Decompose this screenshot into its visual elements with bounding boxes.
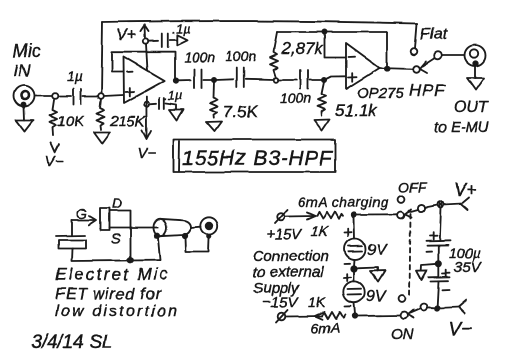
plug tip contact dot — [155, 234, 159, 238]
svg-text:2,87k: 2,87k — [280, 39, 324, 58]
HPF contact circle — [413, 66, 420, 73]
label V+ big — [454, 180, 477, 200]
node B — [98, 93, 104, 99]
capacitor C8 100u — [429, 277, 451, 281]
dashed switch link line — [410, 214, 411, 296]
label HPF — [409, 81, 447, 100]
wire node P5 to ground — [421, 264, 436, 271]
switch SW2a arm with arrow — [405, 209, 419, 218]
terminal -15V circle with slash — [276, 310, 288, 323]
resistor R7 1K bottom — [322, 312, 346, 319]
label Electret Mic — [55, 265, 170, 284]
wire U2 output right — [380, 68, 413, 69]
ground for C3 — [169, 110, 183, 121]
label V- big — [449, 319, 473, 340]
U1 V+ pin wire — [146, 44, 148, 70]
label 35V — [454, 259, 483, 276]
wire node P2 to battery B2 — [353, 271, 355, 281]
svg-text:V+: V+ — [454, 180, 477, 200]
node G U2 output feedback junction — [385, 66, 389, 70]
battery B1 plus sign — [345, 229, 353, 236]
svg-text:6mA: 6mA — [311, 320, 340, 336]
svg-text:to external: to external — [253, 264, 324, 281]
wire C7 to node P5 — [438, 246, 440, 261]
plug P1 barrel — [154, 219, 191, 236]
wire C8 to bottom rail — [437, 282, 438, 307]
U2 plus sign — [348, 73, 357, 82]
plug sleeve contact dot — [183, 234, 187, 238]
svg-text:ON: ON — [391, 326, 414, 343]
Flat contact circle — [411, 48, 418, 55]
svg-text:100n: 100n — [280, 90, 311, 106]
svg-text:Flat: Flat — [420, 26, 447, 43]
wire node C to C5 — [216, 78, 233, 81]
svg-text:V−: V− — [449, 319, 473, 340]
svg-text:9V: 9V — [366, 288, 387, 305]
wire node P5 to C8 — [438, 266, 440, 277]
svg-text:HPF: HPF — [409, 81, 447, 100]
svg-text:35V: 35V — [454, 259, 483, 276]
title box rectangle — [174, 140, 336, 173]
ground arrow mid supply — [371, 271, 386, 282]
capacitor C4 100n — [195, 69, 202, 88]
svg-text:S: S — [111, 230, 121, 246]
label 100n third — [280, 90, 311, 106]
svg-text:1K: 1K — [308, 294, 326, 310]
label 1u — [67, 68, 83, 84]
ground arrow right for C2 — [177, 35, 187, 45]
wire barrel to jack — [191, 226, 201, 229]
capacitor C5 100n — [236, 68, 243, 87]
switch SW1 arm with arrow — [420, 59, 435, 73]
svg-text:D: D — [112, 195, 122, 211]
label Mic IN — [13, 41, 41, 80]
capacitor C1 1u — [74, 89, 82, 104]
wire +15V to R6 with arrow — [285, 213, 316, 220]
label .1u bottom — [164, 88, 182, 103]
OFF position circle top — [398, 196, 405, 203]
terminal +15V circle with slash — [275, 210, 288, 224]
label 100n second — [225, 48, 256, 64]
wire node E down to U2 minus input — [325, 34, 346, 58]
label V+ — [116, 27, 136, 44]
node U1 output — [174, 78, 178, 82]
wire capsule to bottom rail — [72, 249, 161, 262]
battery B2 9V — [343, 281, 364, 302]
node F — [322, 78, 326, 82]
wire drain — [110, 211, 131, 258]
label +15V — [266, 226, 303, 243]
U2 minus sign — [349, 56, 356, 58]
label 7.5K — [223, 102, 259, 121]
label 6mA bottom — [311, 320, 340, 336]
svg-text:OP275: OP275 — [357, 85, 404, 102]
svg-text:3/4/14 SL: 3/4/14 SL — [31, 332, 112, 353]
op-amp U2 OP275 — [346, 44, 380, 90]
U1 V- pin wire with arrow — [142, 97, 151, 139]
wire feedback rail R4 to U2 output — [277, 31, 387, 33]
wire node P2 to ground — [357, 268, 378, 272]
capacitor C8 minus sign — [442, 289, 449, 291]
svg-text:100n: 100n — [184, 49, 215, 65]
wire capsule to gate — [71, 221, 73, 236]
wire bottom rail to ON contact — [357, 315, 401, 318]
switch SW2b contact — [401, 312, 408, 319]
V+ arrow up — [141, 25, 149, 38]
wire sleeve to jack bottom — [186, 238, 209, 252]
node P4 crossed junction — [425, 202, 444, 208]
capacitor C7 plus sign — [430, 232, 438, 239]
label Connection to external Supply — [253, 248, 329, 297]
svg-text:1K: 1K — [311, 223, 329, 239]
svg-text:51.1k: 51.1k — [335, 101, 378, 120]
node A — [52, 93, 58, 99]
resistor R1 10K — [50, 100, 60, 152]
node P2 between batteries — [351, 266, 356, 271]
svg-text:7.5K: 7.5K — [223, 102, 259, 121]
wire node B to op-amp U1 + input — [104, 95, 123, 96]
label 9V top battery — [367, 242, 388, 259]
wire C1 to node B — [83, 95, 98, 97]
wire source to plug — [110, 227, 159, 229]
label D — [112, 195, 122, 211]
wire top rail to switch contact — [356, 214, 397, 216]
label 155Hz B3-HPF — [182, 147, 333, 170]
wire C6 to node F — [310, 79, 321, 81]
switch SW2b arm with arrow — [408, 309, 421, 319]
label 9V bottom battery — [366, 288, 387, 305]
battery B2 plus sign — [344, 274, 352, 281]
ground below J1 — [16, 107, 33, 131]
capacitor C7 minus sign — [427, 251, 433, 253]
wire Flat rail down to Flat contact — [415, 24, 417, 49]
battery B1 minus sign — [344, 262, 350, 264]
wire node A to C1 — [58, 95, 71, 97]
node C — [212, 78, 216, 82]
label ON — [391, 326, 414, 343]
svg-text:OUT: OUT — [454, 99, 489, 116]
label -15V — [262, 294, 299, 311]
battery B1 9V — [345, 239, 366, 260]
svg-text:+15V: +15V — [266, 226, 303, 243]
wire rail up to plug tip — [158, 238, 160, 260]
wire B1 to node P2 — [353, 260, 356, 267]
svg-text:155Hz B3-HPF: 155Hz B3-HPF — [182, 147, 333, 170]
switch SW2b pivot — [420, 304, 427, 311]
svg-text:V−: V− — [45, 153, 64, 170]
svg-text:Electret Mic: Electret Mic — [55, 265, 170, 284]
svg-text:.1µ: .1µ — [172, 22, 190, 37]
node circle on V- pin — [144, 102, 149, 107]
svg-text:V+: V+ — [116, 27, 136, 44]
wire C5 to node D — [245, 78, 273, 81]
svg-text:−15V: −15V — [262, 294, 299, 311]
svg-text:FET wired for: FET wired for — [55, 286, 161, 303]
svg-text:Connection: Connection — [253, 248, 329, 265]
label 51.1k — [335, 101, 378, 120]
connector J2 OUT jack — [465, 45, 486, 66]
svg-text:6mA charging: 6mA charging — [298, 194, 389, 210]
resistor R3 7.5K — [207, 82, 222, 131]
label 215K — [109, 113, 146, 130]
resistor R4 2.87k vertical — [270, 32, 278, 78]
node P1 junction top rail — [352, 213, 356, 217]
wire node G up to feedback rail — [386, 32, 388, 67]
node P3 bottom rail junction — [353, 314, 357, 318]
ground arrow caps — [417, 270, 428, 280]
label 100n first — [184, 49, 215, 65]
svg-text:.1µ: .1µ — [164, 88, 182, 103]
resistor R5 51.1k — [315, 82, 331, 131]
label FET wired for — [55, 286, 161, 303]
label 6mA charging — [298, 194, 389, 210]
wire node P1 to battery B1 — [353, 217, 356, 239]
electret capsule — [56, 236, 86, 249]
label 2.87k — [280, 39, 324, 58]
node P5 mid caps junction — [436, 261, 441, 266]
wire B2 to bottom rail — [354, 303, 355, 314]
label .1u top — [172, 22, 190, 37]
transistor Q1 FET channel bar — [101, 208, 110, 230]
switch SW1 pivot circle — [434, 52, 442, 60]
svg-text:10K: 10K — [57, 113, 85, 130]
capacitor C7 100u — [426, 241, 450, 246]
label V- for R1 — [45, 153, 64, 170]
U1 feedback wire output to minus input — [112, 52, 175, 79]
wire node P6 to V- arrow — [427, 301, 466, 314]
label low distortion — [55, 303, 179, 320]
node H drain to rail junction — [128, 258, 133, 263]
label Flat — [420, 26, 447, 43]
resistor R6 1K horizontal — [317, 212, 343, 219]
wire gate with arrow — [72, 216, 97, 226]
switch SW2a top contact — [397, 212, 404, 219]
node V+ pin circle — [143, 38, 148, 43]
battery B2 minus sign — [345, 305, 351, 307]
wire node F to U2 plus input — [326, 76, 345, 79]
ON position circle — [399, 296, 406, 303]
capacitor C3 0.1u at V- — [149, 98, 176, 110]
label date 3/4/14 SL — [31, 332, 112, 353]
label to E-MU — [434, 119, 489, 136]
svg-text:Mic: Mic — [13, 41, 41, 61]
label OUT — [454, 99, 489, 116]
wire node D to C6 — [278, 79, 297, 81]
wire P4 down to capacitor C7 — [440, 208, 441, 242]
svg-text:100n: 100n — [225, 48, 256, 64]
wire U1 output to C4 — [178, 80, 191, 82]
label 1K top — [311, 223, 329, 239]
op-amp U1 — [124, 57, 165, 104]
svg-text:low distortion: low distortion — [55, 303, 179, 320]
connector J3 mic jack — [200, 217, 217, 238]
wire pivot to output jack — [442, 54, 464, 56]
label OP275 — [357, 85, 404, 102]
U1 minus sign — [127, 71, 133, 73]
label G — [76, 206, 87, 222]
label OFF — [398, 179, 427, 195]
wire top Flat rail — [103, 21, 418, 23]
svg-text:IN: IN — [13, 61, 31, 80]
wire J1 to node A — [35, 95, 52, 97]
svg-text:to E-MU: to E-MU — [434, 119, 489, 136]
connector J1 Mic IN jack — [14, 86, 35, 108]
switch SW2a pivot — [418, 204, 425, 211]
svg-text:215K: 215K — [109, 113, 146, 130]
label S — [111, 230, 121, 246]
label 1K bottom — [308, 294, 326, 310]
node D — [274, 78, 279, 83]
U1 plus sign — [126, 88, 135, 96]
resistor R2 215K — [94, 99, 110, 143]
capacitor C8 plus sign — [443, 270, 451, 277]
node P6 bottom junction — [435, 306, 439, 310]
label 100u — [449, 245, 480, 261]
svg-text:V−: V− — [137, 145, 156, 162]
wire node B up to Flat rail — [102, 22, 103, 93]
svg-text:OFF: OFF — [398, 179, 427, 195]
wire C4 to node C — [204, 79, 212, 81]
capacitor C2 0.1u at V+ — [149, 34, 177, 48]
node E on feedback rail — [322, 30, 326, 34]
label 10K — [57, 113, 85, 130]
svg-text:9V: 9V — [367, 242, 388, 259]
ground below J2 — [467, 67, 484, 91]
wire -15V rail with arrow left — [286, 313, 323, 320]
wire P4 to V+ arrow — [444, 198, 469, 210]
svg-text:1µ: 1µ — [67, 68, 83, 84]
capacitor C6 100n — [301, 70, 309, 89]
label V- below U1 — [137, 145, 156, 162]
